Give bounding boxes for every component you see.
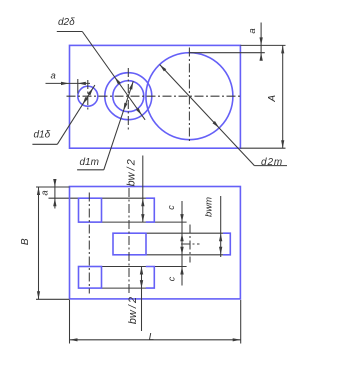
top slot upper edge + left extension [49,197,147,199]
svg-text:a: a [247,28,258,33]
dimension c lower [181,247,183,286]
svg-text:L: L [149,332,155,343]
svg-text:d1δ: d1δ [34,129,51,140]
horizontal center dash middle slot [181,243,200,245]
middle slot right cap [223,233,230,255]
svg-text:c: c [166,205,176,210]
vertical center line middle circle [127,68,129,131]
bottom slot left pocket [79,267,102,289]
dimension a top-right [240,44,285,46]
bottom slot lower edge [102,287,147,289]
big circle d2m [146,53,233,140]
horizontal center line top view [67,95,241,97]
leader and label d1δ (small circle diameter) [32,143,57,145]
small hole circle d1 [78,86,98,106]
middle slot left pocket [113,233,146,255]
vertical center line big circle [188,48,190,144]
dimension bw/2 top slot [142,156,144,223]
bottom view plate outline [70,187,241,299]
bottom slot right cap [146,267,155,289]
top slot lower edge + right extension [79,221,187,223]
top view plate outline [70,45,241,148]
svg-text:B: B [20,238,31,245]
top slot right cap [146,198,155,222]
leader and label d2m (big circle diameter) [160,64,255,165]
vertical center line middle shaft [128,188,130,294]
vertical center line small circle [87,80,89,112]
bottom slot upper edge + right extension [102,266,187,268]
dimension A plate height [240,147,285,149]
dimension a bottom view left [36,186,70,188]
middle outer circle d2 [105,73,152,120]
top slot left pocket [79,198,102,222]
svg-text:d1m: d1m [80,157,99,168]
svg-text:c: c [166,276,176,281]
svg-text:A: A [267,95,278,103]
middle inner circle d1m [113,81,144,112]
svg-text:a: a [51,71,56,82]
leader and label d2δ (middle outer circle diameter) [57,31,83,33]
svg-text:d2m: d2m [261,157,283,168]
middle slot lower edge [146,254,223,256]
svg-text:bw / 2: bw / 2 [127,297,139,324]
vertical center line left shaft [88,193,90,294]
dimension L plate length [69,300,71,344]
dimension a top-left [77,79,79,94]
vertical center line big shaft [189,225,191,263]
svg-text:bwm: bwm [203,197,214,217]
middle slot upper edge [146,232,223,234]
dimension c upper [181,201,183,250]
svg-text:bw / 2: bw / 2 [125,159,137,186]
svg-text:d2δ: d2δ [58,17,75,28]
dimension B plate height bottom view [36,298,70,300]
svg-text:a: a [40,190,51,195]
leader and label d1m (middle inner circle diameter) [77,169,104,171]
dimension bw/2 bottom slot [141,267,143,332]
dimension bwm middle slot [220,196,222,257]
